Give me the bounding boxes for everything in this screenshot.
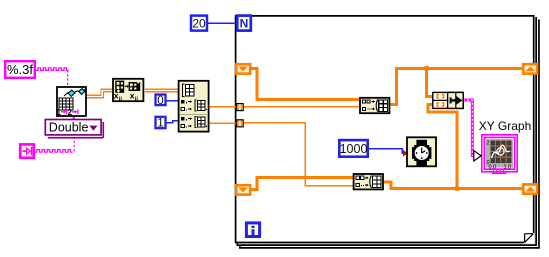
svg-text:Double: Double — [49, 121, 89, 135]
svg-text:ij: ij — [119, 97, 123, 103]
svg-text:ji: ji — [134, 97, 139, 103]
svg-text:%.3f: %.3f — [7, 62, 33, 77]
svg-text:N: N — [240, 16, 249, 30]
svg-text:1: 1 — [57, 108, 62, 117]
svg-text:2: 2 — [487, 141, 490, 147]
svg-text:0: 0 — [157, 95, 163, 107]
svg-text:0.0: 0.0 — [489, 165, 497, 171]
svg-text:20: 20 — [192, 17, 206, 31]
svg-text:1000: 1000 — [340, 142, 368, 156]
svg-text:XY Graph: XY Graph — [479, 119, 531, 133]
svg-text:1: 1 — [157, 118, 163, 130]
svg-text:1.0: 1.0 — [504, 165, 512, 171]
svg-text:2: 2 — [68, 108, 73, 117]
